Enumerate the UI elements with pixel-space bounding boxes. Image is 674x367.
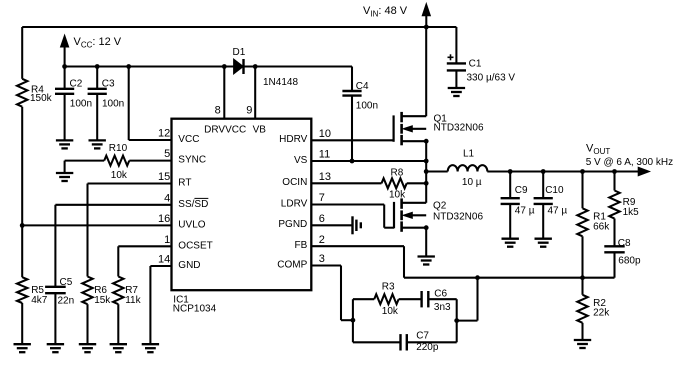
wire SYNC — [129, 160, 171, 162]
wire COMP — [311, 266, 353, 321]
pin 6 PGND name — [278, 219, 307, 230]
node VCC-C2 junction — [62, 64, 67, 69]
capacitor C10 — [534, 171, 553, 238]
svg-text:22n: 22n — [58, 295, 75, 306]
resistor R9 — [609, 191, 619, 219]
wire R7 to ground — [117, 304, 119, 344]
capacitor C6 value — [434, 302, 451, 313]
svg-text:NCP1034: NCP1034 — [173, 304, 217, 315]
ground R2 — [574, 340, 591, 348]
capacitor C5 value — [58, 295, 75, 306]
ground IC GND — [142, 344, 159, 352]
wire R1 top — [581, 171, 583, 208]
ground R7 — [110, 344, 127, 352]
pin 7 number — [319, 192, 325, 204]
transistor Q1 drain tab — [402, 115, 427, 117]
node C10 junction — [541, 169, 546, 174]
resistor R2 value — [593, 308, 610, 319]
capacitor C10 value — [548, 206, 568, 217]
resistor R2 top wire — [581, 278, 583, 295]
pin 16 number — [158, 213, 170, 225]
pin DRVVCC name — [204, 125, 246, 136]
power VOUT arrow — [638, 167, 649, 176]
capacitor C8 label — [618, 238, 631, 249]
capacitor C7 label — [416, 330, 429, 341]
svg-text:C10: C10 — [545, 185, 564, 196]
wire C7 to right vertical — [407, 341, 457, 343]
wire comp to FB — [457, 278, 478, 321]
svg-text:NTD32N06: NTD32N06 — [434, 123, 484, 134]
svg-text:66k: 66k — [593, 222, 610, 233]
wire PGND — [311, 224, 351, 226]
resistor R8 — [382, 178, 407, 188]
node comp right junction — [454, 318, 459, 323]
svg-text:C7: C7 — [416, 330, 429, 341]
pin VB name — [253, 125, 267, 136]
node Q2 source junction — [424, 225, 429, 230]
wire R6 to ground — [86, 304, 88, 344]
resistor R6 label — [94, 285, 107, 296]
svg-text:1N4148: 1N4148 — [263, 77, 298, 88]
resistor R5 value — [31, 295, 48, 306]
pin 6 number — [319, 213, 325, 225]
power VIN arrow — [422, 4, 430, 28]
svg-text:6: 6 — [319, 213, 325, 225]
capacitor C7 value — [416, 342, 439, 353]
ground C2 — [56, 140, 73, 148]
resistor R10 — [104, 156, 129, 166]
wire VCC rail right of D1 — [244, 65, 353, 67]
svg-text:R10: R10 — [109, 143, 128, 154]
resistor R7 value — [125, 295, 141, 306]
svg-text:22k: 22k — [593, 308, 610, 319]
svg-text:UVLO: UVLO — [178, 220, 205, 231]
node VCC label — [74, 36, 122, 50]
transistor Q1 label — [434, 114, 448, 125]
ground R6 — [79, 344, 96, 352]
capacitor C4 value — [356, 100, 378, 111]
capacitor C9 — [501, 171, 520, 238]
svg-text:10: 10 — [319, 128, 331, 140]
IC1 designator — [173, 295, 189, 306]
svg-text:GND: GND — [178, 260, 200, 271]
svg-text:8: 8 — [215, 105, 221, 117]
ground C3 — [89, 140, 106, 148]
svg-text:C4: C4 — [356, 81, 369, 92]
wire left rail top — [21, 27, 23, 79]
IC1 part number — [173, 304, 217, 315]
ground C5 — [47, 344, 64, 352]
capacitor C4 — [342, 67, 361, 162]
svg-text:NTD32N06: NTD32N06 — [433, 211, 483, 222]
wire R9 to C8 — [613, 219, 615, 247]
svg-text:R8: R8 — [391, 167, 404, 178]
pin 8 number — [215, 105, 221, 117]
node FB-comp junction — [475, 275, 480, 280]
svg-text:15: 15 — [158, 171, 170, 183]
resistor R10 value — [111, 170, 128, 181]
pin 4 SS/SD name — [178, 199, 208, 210]
capacitor C4 label — [356, 81, 369, 92]
node D1 anode junction — [222, 64, 227, 69]
svg-text:C3: C3 — [102, 79, 115, 90]
resistor R10 label — [109, 143, 128, 154]
pin 12 number — [158, 128, 170, 140]
node R1 junction — [580, 169, 585, 174]
node VOUT label — [586, 143, 610, 157]
resistor R5 — [17, 277, 27, 303]
svg-text:4k7: 4k7 — [31, 295, 48, 306]
wire VIN rail — [22, 26, 456, 28]
svg-text:C1: C1 — [469, 59, 482, 70]
capacitor C10 label — [545, 185, 564, 196]
svg-text:9: 9 — [246, 105, 252, 117]
resistor R6 — [82, 277, 92, 305]
capacitor C9 label — [515, 185, 528, 196]
svg-text:R3: R3 — [382, 282, 395, 293]
svg-text:12: 12 — [158, 128, 170, 140]
inductor L1 — [426, 165, 487, 171]
svg-text:VCC: VCC — [178, 134, 199, 145]
resistor R1 label — [593, 211, 606, 222]
svg-text:VCC: 12 V: VCC: 12 V — [74, 36, 122, 50]
pin 10 HDRV name — [279, 134, 307, 145]
capacitor C1 polarity + — [448, 54, 454, 60]
wire LDRV to Q2 gate — [311, 205, 394, 228]
svg-text:47 µ: 47 µ — [515, 206, 535, 217]
resistor R9 label — [623, 197, 636, 208]
wire VOUT rail — [487, 170, 640, 172]
svg-text:OCSET: OCSET — [178, 240, 212, 251]
wire VCC to pin 12 — [129, 67, 172, 141]
inductor L1 value — [462, 177, 482, 188]
svg-text:D1: D1 — [233, 47, 246, 58]
transistor Q1 body arrow — [403, 126, 426, 132]
resistor R3 — [374, 294, 398, 304]
pin 14 number — [158, 254, 170, 266]
resistor R8 value — [389, 190, 406, 201]
pin 3 number — [319, 253, 325, 265]
svg-text:15k: 15k — [94, 295, 111, 306]
node VIN label — [363, 5, 408, 18]
svg-text:OCIN: OCIN — [282, 177, 307, 188]
ground PGND — [353, 216, 361, 234]
wire Q1 drain to VIN — [425, 27, 427, 116]
svg-text:220p: 220p — [416, 342, 439, 353]
node C4-VS junction — [350, 159, 355, 164]
op-amp U1 IC1 NCP1034 box — [172, 119, 312, 291]
transistor Q2 label — [433, 201, 447, 212]
transistor Q1 part — [434, 123, 484, 134]
capacitor C1 label — [469, 59, 482, 70]
resistor R4 — [17, 79, 27, 107]
pin 11 VS name — [294, 155, 308, 166]
node comp left junction — [351, 318, 356, 323]
capacitor C2 — [55, 67, 74, 141]
pin 11 number — [319, 149, 330, 161]
wire HDRV to Q1 gate — [311, 139, 393, 141]
wire OCSET to R7 — [118, 246, 171, 276]
wire switch node — [425, 141, 427, 203]
transistor Q2 source tab — [402, 227, 427, 229]
capacitor C1 — [447, 63, 466, 87]
svg-text:VS: VS — [294, 155, 308, 166]
ground C9 — [502, 239, 519, 247]
wire R9 top — [613, 171, 615, 191]
wire FB pin — [311, 246, 404, 278]
node VCC-pin12 junction — [126, 64, 131, 69]
transistor Q2 gate bar — [393, 202, 395, 228]
diode D1 label — [233, 47, 246, 58]
ground R5 — [14, 344, 31, 352]
wire pin 9 VB — [254, 67, 256, 119]
pin 16 UVLO name — [178, 220, 205, 231]
inductor L1 label — [463, 148, 475, 159]
wire comp upper branch left — [353, 298, 374, 300]
wire FB rail — [404, 277, 615, 279]
wire R2 to ground — [581, 323, 583, 340]
ground C1 — [448, 88, 465, 96]
wire SS/SD to C5 — [55, 205, 171, 287]
transistor Q1 channel — [400, 112, 403, 145]
svg-text:SYNC: SYNC — [178, 155, 206, 166]
capacitor C6 — [422, 291, 429, 307]
capacitor C5 label — [60, 277, 73, 288]
svg-text:C6: C6 — [434, 288, 447, 299]
svg-text:C2: C2 — [70, 79, 83, 90]
svg-text:VB: VB — [253, 125, 267, 136]
wire R3 to C6 — [399, 298, 422, 300]
pin 3 COMP name — [277, 259, 307, 270]
node VOUT spec — [586, 157, 673, 168]
pin 4 number — [164, 192, 170, 204]
svg-text:16: 16 — [158, 213, 170, 225]
svg-text:C8: C8 — [618, 238, 631, 249]
capacitor C8 — [604, 246, 624, 277]
resistor R7 — [113, 277, 123, 305]
resistor R3 label — [382, 282, 395, 293]
svg-text:100n: 100n — [70, 99, 92, 110]
node VIN junction — [424, 25, 429, 30]
node VCC-C3 junction — [95, 64, 100, 69]
svg-text:10 µ: 10 µ — [462, 177, 482, 188]
power VCC arrow — [60, 35, 68, 67]
svg-text:10k: 10k — [389, 190, 406, 201]
resistor R4 label — [31, 84, 44, 95]
capacitor C7 — [401, 334, 407, 350]
wire R8 to switch node — [407, 182, 427, 184]
node VS junction — [424, 159, 429, 164]
svg-text:10k: 10k — [382, 306, 399, 317]
wire Q2 source to ground — [425, 228, 427, 256]
resistor R2 — [577, 295, 587, 323]
svg-text:SS/SD: SS/SD — [178, 199, 208, 210]
pin 15 number — [158, 171, 170, 183]
pin 9 number — [246, 105, 252, 117]
svg-text:100n: 100n — [102, 99, 124, 110]
wire OCIN to R8 — [311, 182, 381, 184]
svg-text:PGND: PGND — [278, 219, 307, 230]
node L1 junction — [424, 169, 429, 174]
capacitor C9 value — [515, 206, 535, 217]
svg-text:11: 11 — [319, 149, 330, 161]
node R9 junction — [612, 169, 617, 174]
wire GND pin — [150, 266, 171, 344]
svg-text:RT: RT — [178, 178, 191, 189]
capacitor C6 label — [434, 288, 447, 299]
svg-text:C5: C5 — [60, 277, 73, 288]
node R8 junction — [424, 181, 429, 186]
pin 15 RT name — [178, 178, 191, 189]
resistor R2 label — [593, 298, 606, 309]
resistor R8 label — [391, 167, 404, 178]
wire pin 8 DRVVCC — [223, 67, 225, 119]
capacitor C5 — [45, 287, 66, 344]
transistor Q2 drain tab — [402, 202, 427, 204]
svg-text:FB: FB — [295, 240, 308, 251]
wire C6 to right vertical — [428, 298, 456, 300]
ground Q2 — [418, 257, 435, 265]
node VB junction — [253, 64, 258, 69]
svg-text:7: 7 — [319, 192, 325, 204]
resistor R6 value — [94, 295, 111, 306]
node Q1 source junction — [424, 139, 429, 144]
pin 13 OCIN name — [282, 177, 307, 188]
pin 7 LDRV name — [281, 198, 308, 209]
wire left rail middle — [21, 107, 23, 278]
svg-text:Q2: Q2 — [433, 201, 447, 212]
transistor Q1 source tab — [402, 140, 427, 142]
wire R1 bottom — [581, 236, 583, 277]
svg-text:100n: 100n — [356, 100, 378, 111]
capacitor C3 — [88, 67, 107, 141]
svg-text:C9: C9 — [515, 185, 528, 196]
pin 10 number — [319, 128, 331, 140]
svg-text:COMP: COMP — [277, 259, 307, 270]
capacitor C2 label — [70, 79, 83, 90]
svg-text:3: 3 — [319, 253, 325, 265]
svg-text:11k: 11k — [125, 295, 141, 306]
resistor R3 value — [382, 306, 399, 317]
wire comp right vertical — [456, 299, 458, 342]
svg-text:LDRV: LDRV — [281, 198, 308, 209]
transistor Q2 body arrow — [403, 212, 426, 218]
resistor R1 value — [593, 222, 610, 233]
wire VIN to C1 — [455, 27, 457, 63]
svg-text:2: 2 — [319, 234, 325, 246]
resistor R5 label — [31, 285, 44, 296]
svg-text:DRVVCC: DRVVCC — [204, 125, 246, 136]
ground R10 — [56, 173, 73, 181]
svg-text:1: 1 — [164, 234, 170, 246]
pin 2 number — [319, 234, 325, 246]
ground C10 — [535, 239, 552, 247]
wire R5 to ground — [21, 303, 23, 344]
svg-text:HDRV: HDRV — [279, 134, 307, 145]
wire RT to R6 — [88, 184, 172, 277]
node R1-R2-FB junction — [580, 275, 585, 280]
svg-text:10k: 10k — [111, 170, 128, 181]
svg-text:330 µ/63 V: 330 µ/63 V — [467, 73, 516, 84]
svg-text:VIN: 48 V: VIN: 48 V — [363, 5, 408, 18]
resistor R1 — [577, 208, 587, 236]
wire VS — [311, 160, 426, 162]
pin 12 VCC name — [178, 134, 199, 145]
node C9 junction — [508, 169, 513, 174]
svg-text:1k5: 1k5 — [623, 207, 640, 218]
svg-text:14: 14 — [158, 254, 170, 266]
pin 14 GND name — [178, 260, 200, 271]
wire VCC rail left of D1 — [65, 65, 234, 67]
resistor R9 value — [623, 207, 640, 218]
pin 2 FB name — [295, 240, 308, 251]
svg-text:150k: 150k — [30, 93, 53, 104]
diode D1 — [234, 59, 244, 74]
node UVLO junction — [20, 223, 25, 228]
capacitor C3 value — [102, 99, 124, 110]
capacitor C3 label — [102, 79, 115, 90]
transistor Q1 gate bar — [393, 115, 395, 141]
svg-text:4: 4 — [164, 192, 170, 204]
capacitor C1 value — [467, 73, 516, 84]
resistor R7 label — [125, 285, 138, 296]
capacitor C8 value — [618, 255, 641, 266]
pin 5 number — [164, 148, 170, 160]
wire comp lower branch left — [353, 341, 401, 343]
svg-text:5 V @ 6 A, 300 kHz: 5 V @ 6 A, 300 kHz — [586, 157, 673, 168]
svg-text:13: 13 — [319, 171, 331, 183]
diode D1 value 1N4148 — [263, 77, 298, 88]
svg-text:5: 5 — [164, 148, 170, 160]
pin 1 OCSET name — [178, 240, 212, 251]
pin 5 SYNC name — [178, 155, 206, 166]
pin 13 number — [319, 171, 331, 183]
svg-text:47 µ: 47 µ — [548, 206, 568, 217]
capacitor C2 value — [70, 99, 92, 110]
svg-text:680p: 680p — [618, 255, 641, 266]
resistor R4 value — [30, 93, 53, 104]
wire UVLO — [22, 224, 171, 226]
transistor Q2 channel — [400, 198, 403, 231]
wire R10 to ground — [65, 161, 105, 173]
pin 1 number — [164, 234, 170, 246]
svg-text:3n3: 3n3 — [434, 302, 451, 313]
wire comp left vertical — [352, 299, 354, 342]
svg-text:L1: L1 — [463, 148, 475, 159]
transistor Q2 part — [433, 211, 483, 222]
